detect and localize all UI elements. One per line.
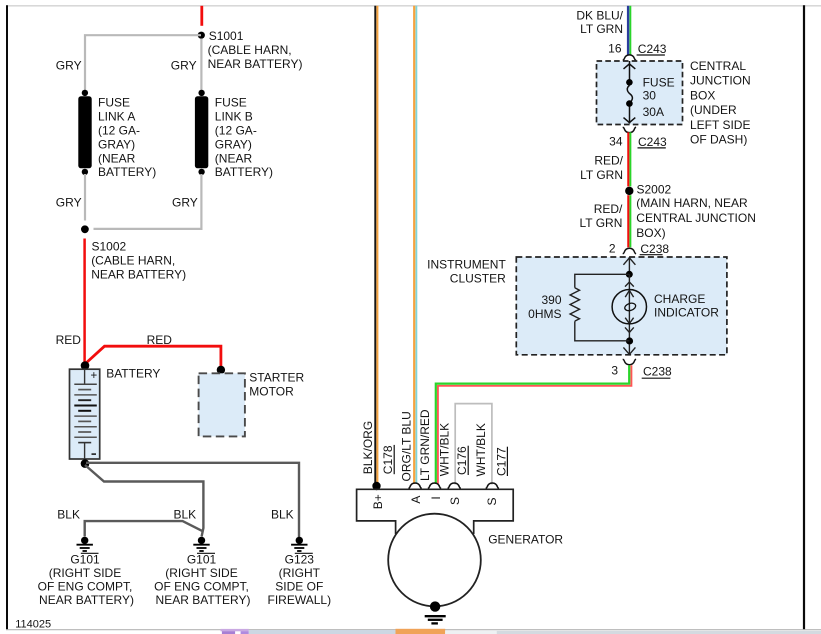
label G101 left <box>38 552 134 607</box>
node battery negative <box>81 459 90 468</box>
label FUSE LINK B <box>215 96 273 180</box>
label DK BLU/LT GRN <box>576 9 623 36</box>
label S2002 <box>636 183 756 241</box>
svg-text:C238: C238 <box>643 365 672 379</box>
svg-text:G101: G101 <box>70 552 100 566</box>
svg-text:OF ENG COMPT,: OF ENG COMPT, <box>154 580 249 594</box>
svg-text:BLK/ORG: BLK/ORG <box>361 421 375 474</box>
node B+ terminal <box>372 482 380 490</box>
fuse link B <box>195 90 208 175</box>
label ORG/LT BLU <box>399 411 413 481</box>
connector C243 label bottom <box>638 135 668 149</box>
bottom strip gray <box>497 631 821 634</box>
svg-text:WHT/BLK: WHT/BLK <box>438 423 452 476</box>
generator ground <box>425 601 446 623</box>
fuse link A <box>78 90 91 175</box>
ground G123 symbol <box>291 537 307 551</box>
svg-text:CHARGE: CHARGE <box>654 292 705 306</box>
wire GRY fuse A to S1002 <box>84 174 86 221</box>
svg-text:RED: RED <box>147 333 173 347</box>
svg-text:JUNCTION: JUNCTION <box>690 74 751 88</box>
wire GRY S1001 left branch <box>85 35 201 91</box>
lamp filament loop <box>624 302 637 312</box>
svg-text:CENTRAL JUNCTION: CENTRAL JUNCTION <box>636 211 756 225</box>
svg-text:DK BLU/: DK BLU/ <box>576 9 623 23</box>
svg-text:30A: 30A <box>643 105 664 119</box>
svg-text:NEAR BATTERY): NEAR BATTERY) <box>91 267 186 281</box>
wire RED S1002 to battery <box>83 239 86 363</box>
connector C177 label <box>494 447 508 476</box>
label CHARGE INDICATOR <box>654 292 719 320</box>
svg-text:MOTOR: MOTOR <box>249 384 294 398</box>
generator pin box <box>357 489 514 534</box>
svg-text:LT GRN: LT GRN <box>579 216 622 230</box>
svg-text:LEFT SIDE: LEFT SIDE <box>690 118 750 132</box>
connector symbol pin S1 <box>448 483 461 488</box>
svg-text:FUSE: FUSE <box>215 96 247 110</box>
svg-text:C177: C177 <box>494 447 508 476</box>
svg-text:C178: C178 <box>381 445 395 474</box>
svg-text:GRY: GRY <box>56 196 82 210</box>
wire BLK G101 left to junction <box>85 521 203 536</box>
svg-text:LT GRN: LT GRN <box>580 168 623 182</box>
label RED/LT GRN upper <box>580 154 624 182</box>
node starter motor terminal <box>217 366 225 374</box>
label G123 <box>268 552 332 607</box>
svg-text:INSTRUMENT: INSTRUMENT <box>427 257 506 271</box>
wire GRY fuse B to S1002 <box>94 174 202 229</box>
svg-text:OF DASH): OF DASH) <box>690 133 747 147</box>
svg-text:NEAR BATTERY): NEAR BATTERY) <box>156 593 251 607</box>
svg-text:S1002: S1002 <box>92 240 127 254</box>
wire GRY S1001 down branch <box>200 39 202 92</box>
connector C178 label <box>381 445 395 474</box>
wire BLK battery to G101 middle <box>85 465 203 537</box>
pin letter A <box>409 496 423 504</box>
svg-text:G123: G123 <box>285 552 315 566</box>
svg-text:FUSE: FUSE <box>98 96 130 110</box>
svg-text:GRY: GRY <box>172 196 198 210</box>
connector C176 label <box>455 446 469 475</box>
svg-text:(RIGHT: (RIGHT <box>279 566 321 580</box>
wire jumper between S pins <box>455 404 492 485</box>
svg-text:16: 16 <box>608 42 622 56</box>
label LT GRN/RED <box>418 409 432 481</box>
charge indicator lamp circle <box>612 290 646 324</box>
svg-text:BLK: BLK <box>174 508 197 522</box>
connector symbol C238 pin 3 <box>623 359 636 364</box>
svg-text:(MAIN HARN, NEAR: (MAIN HARN, NEAR <box>636 196 748 210</box>
pin letter B+ <box>371 494 385 509</box>
wire BLK battery to G123 <box>86 463 299 537</box>
label S1002 <box>91 240 186 282</box>
svg-text:GRY: GRY <box>171 58 197 72</box>
starter motor box <box>199 373 245 436</box>
svg-text:A: A <box>409 496 423 504</box>
frame left border <box>6 5 8 629</box>
svg-text:INDICATOR: INDICATOR <box>654 305 719 319</box>
connector C243 label top <box>637 42 667 56</box>
wire LT GRN/RED from C238-3 to generator I <box>436 365 632 484</box>
instrument cluster box <box>516 257 727 355</box>
svg-text:FIREWALL): FIREWALL) <box>268 593 332 607</box>
wire red from top to S1001 <box>200 6 203 26</box>
svg-text:(CABLE HARN,: (CABLE HARN, <box>91 254 175 268</box>
svg-text:LINK A: LINK A <box>98 110 135 124</box>
svg-text:BOX): BOX) <box>636 226 665 240</box>
label STARTER MOTOR <box>249 371 304 399</box>
bottom strip purple fragment <box>221 629 249 634</box>
label 390 0HMS <box>528 293 562 321</box>
bottom strip blue gray <box>249 630 396 634</box>
svg-text:(RIGHT SIDE: (RIGHT SIDE <box>165 566 237 580</box>
battery <box>70 369 100 459</box>
bottom strip orange <box>396 629 446 634</box>
label FUSE LINK A <box>98 96 156 180</box>
svg-text:114025: 114025 <box>15 619 51 631</box>
ground G101 middle symbol <box>193 537 209 551</box>
svg-text:GRY: GRY <box>56 58 82 72</box>
label CENTRAL JUNCTION BOX <box>690 59 751 147</box>
svg-text:BLK: BLK <box>271 508 294 522</box>
svg-text:S: S <box>485 497 499 505</box>
svg-text:(UNDER: (UNDER <box>690 103 737 117</box>
svg-text:RED/: RED/ <box>594 154 623 168</box>
wire ORG/LT BLU vertical <box>414 6 416 484</box>
svg-text:34: 34 <box>609 134 623 148</box>
svg-text:30: 30 <box>643 89 657 103</box>
svg-text:(12 GA-: (12 GA- <box>215 124 257 138</box>
svg-text:GRAY): GRAY) <box>215 137 252 151</box>
svg-text:RED/: RED/ <box>594 202 623 216</box>
svg-text:SIDE OF: SIDE OF <box>275 580 323 594</box>
wire RED/LT GRN upper <box>628 132 630 186</box>
central junction box <box>597 61 683 125</box>
frame right border <box>803 5 805 630</box>
frame bottom border <box>6 629 821 631</box>
svg-text:I: I <box>429 496 443 499</box>
ground G101 left symbol <box>77 537 93 551</box>
svg-text:OF ENG COMPT,: OF ENG COMPT, <box>38 580 133 594</box>
connector symbol pin A <box>408 483 421 488</box>
svg-text:S1001: S1001 <box>209 29 244 43</box>
svg-text:2: 2 <box>609 241 616 255</box>
generator pin labels rotated <box>361 421 375 474</box>
svg-text:3: 3 <box>611 364 618 378</box>
label WHT/BLK 1 <box>438 423 452 476</box>
pin letter I <box>429 496 443 499</box>
splice S2002 <box>625 187 633 195</box>
svg-text:LT GRN/RED: LT GRN/RED <box>418 409 432 481</box>
connector symbol C238 pin 2 <box>623 248 636 253</box>
svg-text:(12 GA-: (12 GA- <box>98 124 140 138</box>
label S1001 <box>208 29 303 71</box>
label INSTRUMENT CLUSTER <box>427 257 506 285</box>
charge indicator circuit vertical <box>623 257 635 355</box>
svg-text:S2002: S2002 <box>637 183 672 197</box>
connector C238 label top <box>640 242 670 256</box>
svg-text:(CABLE HARN,: (CABLE HARN, <box>208 43 292 57</box>
wire RED battery to starter motor <box>86 346 221 366</box>
pin letter S1 <box>448 497 462 505</box>
connector symbol pin I <box>428 483 441 488</box>
svg-text:390: 390 <box>541 293 561 307</box>
svg-text:BOX: BOX <box>690 88 715 102</box>
frame top border <box>6 5 821 7</box>
svg-text:FUSE: FUSE <box>643 76 675 90</box>
svg-text:BATTERY): BATTERY) <box>215 165 273 179</box>
svg-text:BATTERY: BATTERY <box>106 367 160 381</box>
svg-text:(NEAR: (NEAR <box>98 151 136 165</box>
connector symbol pin S2 <box>486 483 499 488</box>
svg-text:B+: B+ <box>371 494 385 509</box>
svg-text:C243: C243 <box>638 135 667 149</box>
svg-text:(NEAR: (NEAR <box>215 151 253 165</box>
svg-text:ORG/LT BLU: ORG/LT BLU <box>399 411 413 481</box>
svg-text:C176: C176 <box>455 446 469 475</box>
svg-text:GENERATOR: GENERATOR <box>488 533 563 547</box>
splice S1002 <box>81 225 89 233</box>
svg-text:C243: C243 <box>638 42 667 56</box>
label WHT/BLK 2 <box>474 423 488 476</box>
svg-text:NEAR BATTERY): NEAR BATTERY) <box>208 57 303 71</box>
svg-text:S: S <box>448 497 462 505</box>
connector symbol C243 pin 16 <box>623 55 636 60</box>
svg-text:GRAY): GRAY) <box>98 137 135 151</box>
bottom strip light <box>445 631 497 634</box>
svg-text:+: + <box>90 370 97 382</box>
wire BLK/ORG vertical <box>375 6 377 483</box>
splice S1001 <box>198 32 205 39</box>
pin letter S2 <box>485 497 499 505</box>
svg-text:0HMS: 0HMS <box>528 307 561 321</box>
connector symbol C243 pin 34 <box>623 127 636 132</box>
label FUSE 30 30A <box>643 76 675 119</box>
fuse 30 element <box>624 61 636 124</box>
label G101 middle <box>154 552 250 607</box>
svg-text:RED: RED <box>56 333 82 347</box>
svg-text:CENTRAL: CENTRAL <box>690 59 746 73</box>
wire RED/LT GRN lower <box>628 195 630 247</box>
label RED/LT GRN lower <box>579 202 623 230</box>
wire DK BLU/LT GRN top <box>628 6 630 55</box>
connector C238 label bottom <box>642 365 672 379</box>
svg-text:LT GRN: LT GRN <box>580 22 623 36</box>
svg-text:(RIGHT SIDE: (RIGHT SIDE <box>49 566 121 580</box>
svg-text:LINK B: LINK B <box>215 110 253 124</box>
svg-text:C238: C238 <box>640 242 669 256</box>
svg-text:BATTERY): BATTERY) <box>98 165 156 179</box>
svg-text:CLUSTER: CLUSTER <box>450 272 506 286</box>
svg-text:BLK: BLK <box>57 508 80 522</box>
svg-text:G101: G101 <box>187 552 217 566</box>
node battery positive <box>81 361 90 370</box>
svg-text:STARTER: STARTER <box>249 371 304 385</box>
generator circle <box>388 514 481 607</box>
svg-text:NEAR BATTERY): NEAR BATTERY) <box>39 593 134 607</box>
resistor 390 ohms branch <box>570 274 629 341</box>
svg-text:WHT/BLK: WHT/BLK <box>474 423 488 476</box>
